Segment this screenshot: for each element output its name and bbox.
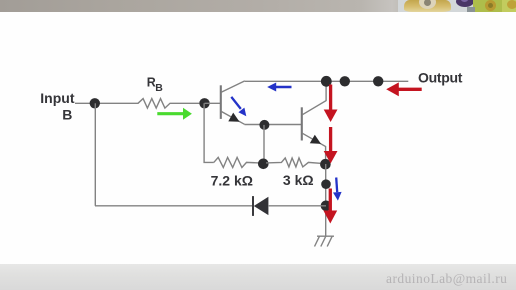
transistor Q2 emitter: [302, 133, 325, 164]
node N1: [90, 98, 100, 108]
node N7: [321, 201, 332, 212]
wire bottom rail: [95, 205, 252, 207]
wire main vertical down: [325, 164, 327, 236]
resistor 7.2k: [214, 157, 259, 167]
node N2: [199, 98, 209, 108]
wire input to RB: [75, 102, 139, 104]
red current arrow 2: [329, 127, 332, 152]
wire N1 down left branch: [94, 103, 96, 206]
wire Q1 emitter to Q2 base: [245, 124, 302, 126]
green current arrow into base: [157, 112, 184, 115]
svg-text:Output: Output: [418, 69, 463, 85]
top rail wire: [245, 80, 408, 82]
node N4: [258, 159, 269, 170]
node D1 top rail: [321, 76, 332, 87]
wire N3 down: [263, 125, 265, 164]
node D2 top rail: [340, 76, 350, 86]
ground: [315, 236, 335, 246]
svg-text:B: B: [155, 82, 163, 94]
svg-text:7.2 kΩ: 7.2 kΩ: [211, 172, 253, 188]
diode D1: [254, 197, 269, 215]
transistor Q2 collector: [302, 81, 326, 115]
node N5: [320, 159, 331, 170]
blue arrow small: [336, 178, 337, 193]
wire diode to N7: [269, 205, 326, 207]
transistor Q2 base bar: [301, 107, 303, 140]
red output arrow: [398, 88, 422, 91]
resistor RB: [138, 99, 199, 109]
node D3 top rail: [373, 76, 383, 86]
blue arrow into Q1: [231, 97, 241, 109]
red current arrow 1: [329, 85, 332, 111]
node N6: [321, 179, 331, 189]
node N3: [259, 120, 269, 130]
wire N2 down to 7.2k: [204, 103, 214, 162]
transistor Q1 emitter arrow: [228, 113, 239, 122]
svg-text:B: B: [62, 106, 72, 122]
wire N2 to Q1 base: [205, 102, 221, 104]
transistor Q1 collector: [221, 81, 245, 92]
svg-text:Input: Input: [40, 90, 75, 106]
resistor 3k: [266, 158, 320, 167]
transistor Q1 base bar: [220, 85, 222, 119]
red current arrow 3: [329, 189, 332, 212]
transistor Q2 emitter arrow: [310, 135, 321, 144]
diode D1 cathode bar: [252, 196, 254, 216]
blue arrow on top rail: [275, 86, 292, 89]
transistor Q1 emitter: [221, 111, 244, 124]
svg-text:3 kΩ: 3 kΩ: [283, 172, 314, 188]
